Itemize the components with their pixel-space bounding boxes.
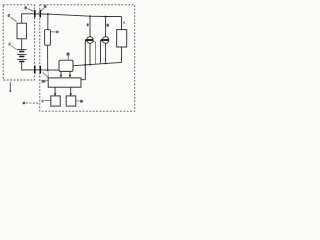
label 3 + leader (upper right terminal) [41,5,46,11]
junction node on rail at emitter 7 [89,64,91,66]
label 7' (right of wire) [107,24,109,27]
wire battery bottom to lower terminal [22,62,35,70]
leader dot and dashed leader for box 2 (bottom left) [23,102,40,105]
resistor (left box) [17,23,27,39]
wire resistor top to terminal (left box) [22,14,35,23]
transistor 7' base wire down to rail [100,40,102,63]
terminal bar 2a (lower, on left box edge) [34,66,36,74]
transistor 7' emitter wire (bottom) [105,43,107,63]
battery B1 (three cells) [17,50,27,62]
label 1 (left box reference, below box) [9,82,11,92]
faint wire node down to logic block [47,71,50,78]
label 2' leader (lower terminal, diagonal) [42,72,48,77]
connector control block to logic block (right, arrow) [69,71,71,77]
control block 8 (upper rectangle) [59,60,73,71]
transistor 7 auxiliary lead (right side) down to rail [93,41,95,63]
connector control block to logic block (left, arrow) [60,71,62,77]
label 5 + leader to resistor [8,14,17,22]
transistor 7 emitter wire (bottom) [89,43,91,64]
junction node on rail at emitter 7' [105,63,107,65]
terminal bar 4a (upper, on left box edge) [34,10,36,17]
wire logic block down to element 12 (arrow) [70,87,72,96]
dashed enclosure box 2 (right, main unit) [40,5,135,111]
junction node at transistor 7' branch [105,16,107,18]
wire resistor 6 bottom to node [47,45,49,70]
transistor 7 base lead with arrow [85,39,87,42]
label 7 (left of wire) [87,23,89,26]
dashed enclosure box 1 (left, power source unit) [3,5,34,80]
top supply rail (right box) [40,14,121,17]
label 13 (faint, right of top wire) [123,22,125,24]
label 4 + leader (upper left terminal) [24,6,33,11]
transistor 7 collector wire (top) [89,16,91,37]
terminal bar 2b (lower, on right box edge) [39,66,41,74]
label 2 + leader to battery [8,43,16,50]
transistor 7' collector wire (top) [105,17,107,37]
wire between lower terminals [35,69,41,71]
wire load resistor bottom to lower rail [121,47,123,62]
load resistor 13 (right rectangle) [117,30,127,47]
label 8 + leader (above control block) [67,53,70,61]
junction node at lower terminal wire [47,69,49,71]
resistor 6 (right box) [45,30,51,46]
wire lower terminal to control block left [40,69,59,71]
element 11 (bottom square left) [51,96,60,106]
transistor 7 base wire down to logic block [81,40,85,79]
terminal bar 3a (upper, on right box edge) [39,10,41,17]
junction node on rail at base wire 7 [84,64,86,66]
wire rail to resistor 6 [47,14,49,30]
junction node at resistor tap [47,13,49,15]
logic block 9 (lower rectangle) [48,78,81,87]
junction node at transistor 7 branch [89,15,91,17]
label 12 + leader (right of square) [76,100,83,103]
wire rail to load resistor top [121,17,123,30]
transistor 7' (right circle) [102,37,109,44]
wire resistor bottom to battery [21,39,23,50]
transistor 7 (left circle) [87,37,94,44]
element 12 (bottom square right) [66,96,76,106]
label 6 + leader (right resistor) [51,31,59,34]
label 9 + leader (left of logic block) [41,80,48,83]
wire logic block down to element 11 (arrow) [54,87,56,96]
wire between upper terminals [35,13,41,15]
label 11 + leader (left of square) [42,100,51,103]
transistor 7' base lead with arrow [101,39,103,42]
lower collecting rail [73,62,122,65]
